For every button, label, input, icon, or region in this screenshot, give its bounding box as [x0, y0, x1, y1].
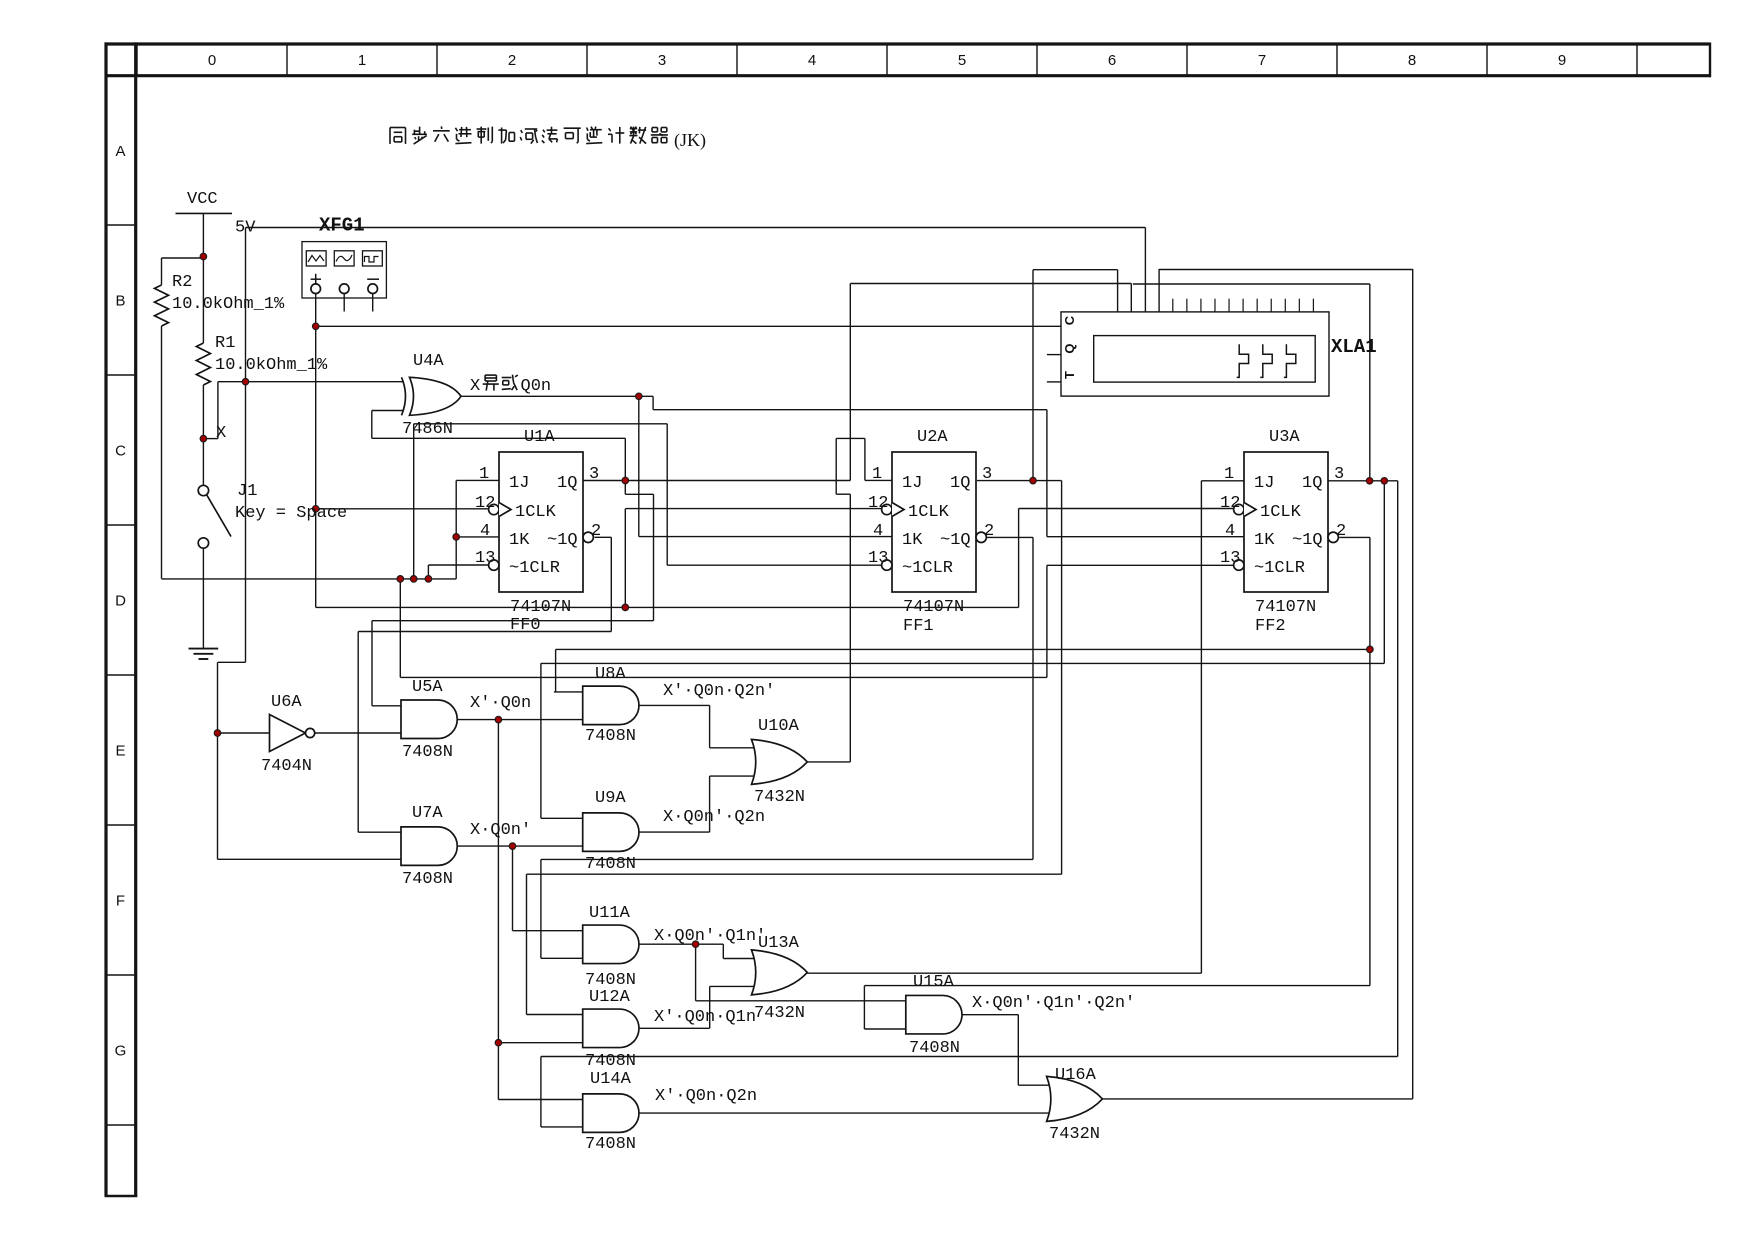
svg-text:X'·Q0n·Q1n: X'·Q0n·Q1n	[654, 1008, 756, 1027]
svg-text:XFG1: XFG1	[319, 215, 365, 237]
svg-text:7408N: 7408N	[909, 1039, 960, 1058]
svg-text:R1: R1	[215, 334, 235, 353]
svg-text:~1CLR: ~1CLR	[509, 559, 560, 578]
svg-text:7408N: 7408N	[585, 855, 636, 874]
svg-text:1Q: 1Q	[557, 474, 577, 493]
svg-text:9: 9	[1558, 52, 1566, 69]
svg-text:X'·Q0n: X'·Q0n	[470, 694, 531, 713]
svg-text:D: D	[115, 593, 126, 610]
svg-text:X·Q0n'·Q1n'·Q2n': X·Q0n'·Q1n'·Q2n'	[972, 994, 1135, 1013]
svg-text:6: 6	[1108, 52, 1116, 69]
svg-text:3: 3	[589, 465, 599, 484]
svg-text:13: 13	[475, 549, 495, 568]
svg-text:7408N: 7408N	[585, 727, 636, 746]
svg-text:3: 3	[982, 465, 992, 484]
svg-text:X·Q0n'·Q1n': X·Q0n'·Q1n'	[654, 927, 766, 946]
svg-text:F: F	[116, 893, 125, 910]
svg-text:1CLK: 1CLK	[1260, 503, 1302, 522]
svg-text:13: 13	[1220, 549, 1240, 568]
svg-text:1CLK: 1CLK	[515, 503, 557, 522]
svg-text:7432N: 7432N	[754, 1004, 805, 1023]
svg-text:Q: Q	[1062, 343, 1077, 353]
svg-text:2: 2	[591, 522, 601, 541]
svg-text:J1: J1	[237, 482, 257, 501]
svg-text:7432N: 7432N	[754, 788, 805, 807]
svg-text:7486N: 7486N	[402, 420, 453, 439]
svg-text:7432N: 7432N	[1049, 1125, 1100, 1144]
svg-text:8: 8	[1408, 52, 1416, 69]
svg-text:C: C	[1062, 315, 1077, 325]
svg-text:U16A: U16A	[1055, 1066, 1097, 1085]
svg-text:12: 12	[1220, 494, 1240, 513]
svg-text:4: 4	[480, 522, 490, 541]
svg-text:1K: 1K	[902, 531, 923, 550]
svg-text:U4A: U4A	[413, 352, 444, 371]
svg-text:~1Q: ~1Q	[940, 531, 971, 550]
svg-text:FF2: FF2	[1255, 617, 1286, 636]
svg-text:1J: 1J	[1254, 474, 1274, 493]
svg-text:U1A: U1A	[524, 428, 555, 447]
svg-text:10.0kOhm_1%: 10.0kOhm_1%	[215, 356, 328, 375]
svg-text:2: 2	[1336, 522, 1346, 541]
svg-text:2: 2	[508, 52, 516, 69]
svg-text:1: 1	[479, 465, 489, 484]
svg-text:7404N: 7404N	[261, 757, 312, 776]
svg-text:10.0kOhm_1%: 10.0kOhm_1%	[172, 295, 285, 314]
svg-text:74107N: 74107N	[1255, 598, 1316, 617]
svg-text:4: 4	[1225, 522, 1235, 541]
svg-text:(JK): (JK)	[674, 130, 706, 151]
svg-text:7408N: 7408N	[585, 1052, 636, 1071]
svg-text:12: 12	[475, 494, 495, 513]
svg-text:7408N: 7408N	[585, 1135, 636, 1154]
svg-text:Key = Space: Key = Space	[235, 504, 347, 523]
svg-text:VCC: VCC	[187, 190, 218, 209]
svg-text:X'·Q0n·Q2n: X'·Q0n·Q2n	[655, 1087, 757, 1106]
svg-text:U14A: U14A	[590, 1070, 632, 1089]
svg-text:7: 7	[1258, 52, 1266, 69]
svg-text:Q0n: Q0n	[521, 377, 552, 396]
svg-text:U11A: U11A	[589, 904, 631, 923]
svg-text:X: X	[216, 424, 226, 443]
svg-text:E: E	[115, 743, 125, 760]
svg-text:X'·Q0n·Q2n': X'·Q0n·Q2n'	[663, 682, 775, 701]
svg-text:U6A: U6A	[271, 693, 302, 712]
svg-text:1J: 1J	[902, 474, 922, 493]
svg-text:1Q: 1Q	[950, 474, 970, 493]
svg-text:74107N: 74107N	[510, 598, 571, 617]
svg-text:U9A: U9A	[595, 789, 626, 808]
svg-text:13: 13	[868, 549, 888, 568]
svg-text:U15A: U15A	[913, 973, 955, 992]
svg-text:~1Q: ~1Q	[547, 531, 578, 550]
svg-text:U10A: U10A	[758, 717, 800, 736]
svg-text:1: 1	[1224, 465, 1234, 484]
svg-text:X: X	[470, 377, 480, 396]
svg-text:R2: R2	[172, 273, 192, 292]
svg-text:XLA1: XLA1	[1331, 336, 1377, 358]
svg-text:4: 4	[873, 522, 883, 541]
svg-text:U5A: U5A	[412, 678, 443, 697]
svg-text:74107N: 74107N	[903, 598, 964, 617]
svg-text:1CLK: 1CLK	[908, 503, 950, 522]
svg-text:3: 3	[658, 52, 666, 69]
svg-text:U3A: U3A	[1269, 428, 1300, 447]
svg-text:1K: 1K	[1254, 531, 1275, 550]
svg-text:1: 1	[872, 465, 882, 484]
svg-text:12: 12	[868, 494, 888, 513]
svg-text:7408N: 7408N	[402, 870, 453, 889]
svg-text:2: 2	[984, 522, 994, 541]
svg-text:1: 1	[358, 52, 366, 69]
svg-text:7408N: 7408N	[402, 743, 453, 762]
svg-text:0: 0	[208, 52, 216, 69]
svg-text:U2A: U2A	[917, 428, 948, 447]
svg-text:U12A: U12A	[589, 988, 631, 1007]
svg-text:X·Q0n'·Q2n: X·Q0n'·Q2n	[663, 808, 765, 827]
svg-text:T: T	[1062, 371, 1077, 379]
svg-text:1J: 1J	[509, 474, 529, 493]
svg-text:G: G	[115, 1043, 127, 1060]
svg-text:FF1: FF1	[903, 617, 934, 636]
svg-text:4: 4	[808, 52, 816, 69]
svg-text:FF0: FF0	[510, 616, 541, 635]
svg-text:3: 3	[1334, 465, 1344, 484]
svg-text:1K: 1K	[509, 531, 530, 550]
svg-text:1Q: 1Q	[1302, 474, 1322, 493]
svg-text:U8A: U8A	[595, 665, 626, 684]
svg-text:U13A: U13A	[758, 934, 800, 953]
svg-text:X·Q0n': X·Q0n'	[470, 821, 531, 840]
svg-text:~1CLR: ~1CLR	[1254, 559, 1305, 578]
svg-text:C: C	[115, 443, 126, 460]
svg-text:5V: 5V	[235, 219, 256, 238]
svg-text:~1Q: ~1Q	[1292, 531, 1323, 550]
svg-text:5: 5	[958, 52, 966, 69]
svg-text:~1CLR: ~1CLR	[902, 559, 953, 578]
svg-text:B: B	[115, 293, 125, 310]
svg-text:U7A: U7A	[412, 804, 443, 823]
svg-text:A: A	[115, 143, 125, 160]
